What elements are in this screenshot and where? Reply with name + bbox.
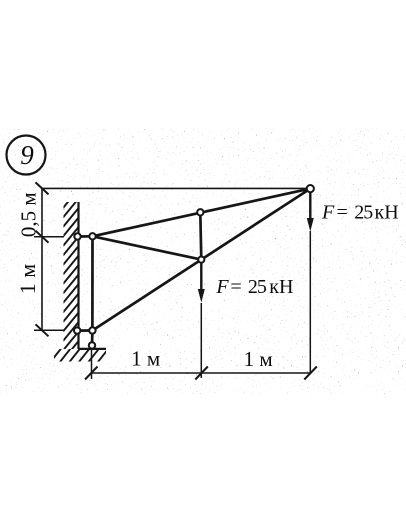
node 2	[89, 233, 95, 239]
node C	[89, 342, 95, 348]
tick at (42,236.7)	[36, 231, 49, 243]
tick at (91,373)	[85, 367, 98, 380]
force arrow F2 (middle)	[200, 263, 202, 291]
member: left vertical	[91, 236, 94, 330]
extension line at y=330.3	[34, 329, 64, 331]
wall hatching	[63, 189, 79, 361]
link: bottom support link	[91, 331, 94, 346]
ground line	[79, 348, 107, 350]
tick at (42,330.3)	[36, 324, 49, 336]
bottom dimension line	[91, 372, 311, 374]
node W2	[74, 327, 80, 333]
tick at (310.3,373)	[304, 367, 317, 380]
tick at (42,188.4)	[36, 182, 49, 194]
tick at (201.3,373)	[195, 367, 208, 380]
force arrow F1 (right)	[309, 192, 311, 220]
extension line at y=236.7	[34, 236, 64, 238]
member: middle vertical	[200, 212, 201, 259]
bottom extension line x=91.5	[91, 349, 93, 380]
node TR	[307, 185, 314, 192]
wall edge line	[77, 202, 79, 349]
faint scan speckle texture	[0, 0, 1, 1]
bottom extension line x=310.3	[309, 231, 311, 373]
link: lower wall link	[77, 329, 92, 332]
bottom extension line x=201.3	[200, 303, 202, 378]
left vertical dimension line	[41, 188, 43, 330]
member: middle horizontal diagonal	[93, 236, 202, 259]
node M	[198, 257, 204, 263]
node W1	[74, 233, 80, 239]
top dimension line	[42, 187, 310, 189]
link: upper wall link	[78, 235, 93, 238]
node TM	[197, 209, 203, 215]
node B	[89, 327, 95, 333]
member: top chord	[93, 189, 311, 237]
ground hatching	[50, 348, 109, 363]
figure number circle 9	[7, 136, 46, 175]
member: main diagonal	[92, 189, 310, 331]
